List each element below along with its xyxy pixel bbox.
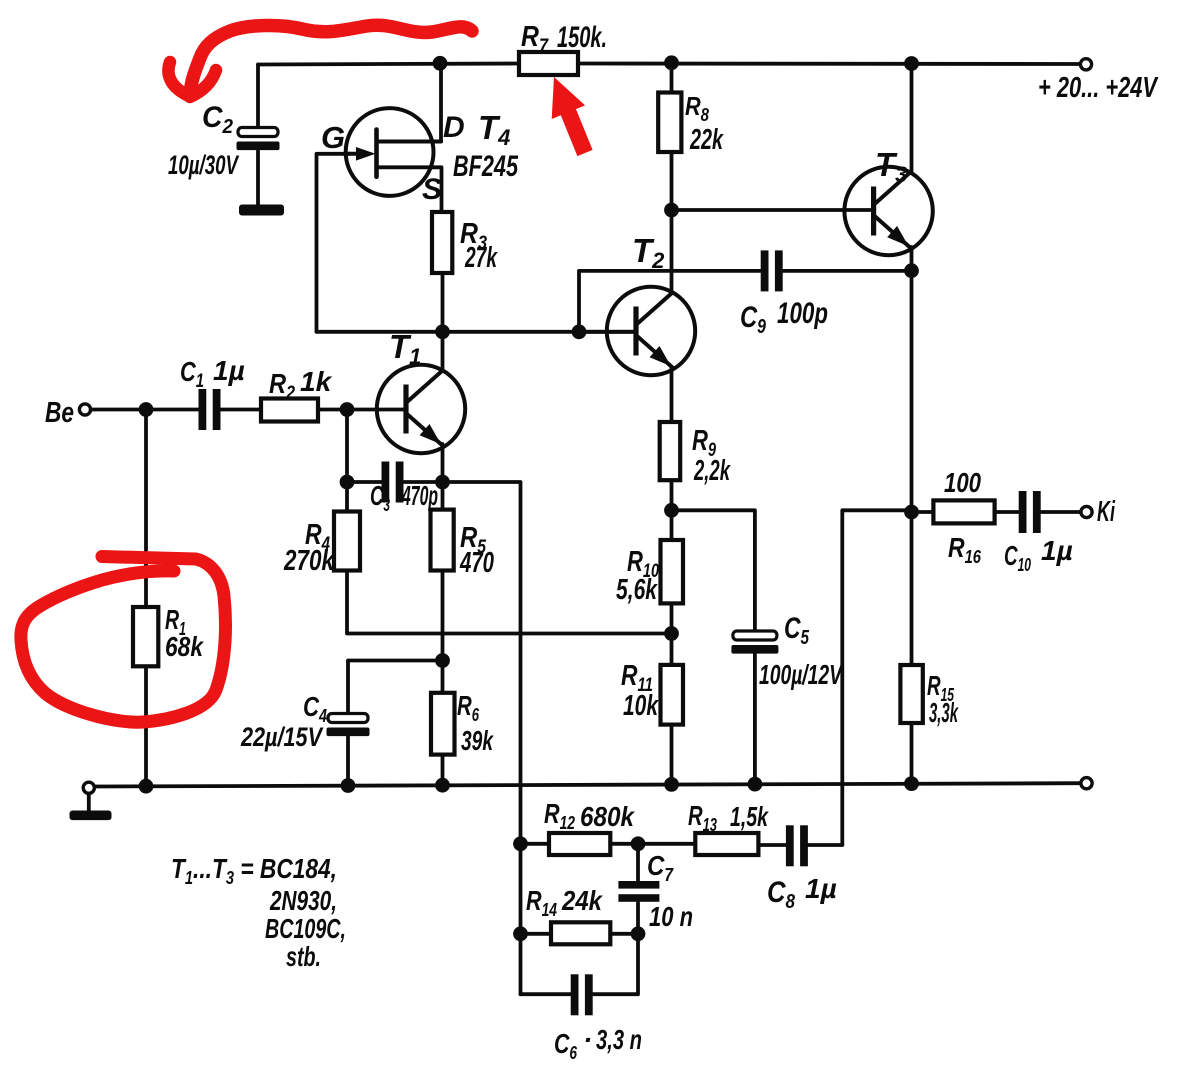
label 680k bbox=[580, 801, 635, 832]
svg-text:S: S bbox=[422, 173, 442, 206]
label 470p bbox=[401, 480, 438, 511]
terminal ground left bbox=[83, 782, 94, 793]
label R8 bbox=[685, 91, 709, 125]
svg-text:22µ/15V: 22µ/15V bbox=[240, 722, 323, 752]
label C3 bbox=[370, 480, 390, 515]
svg-text:2,2k: 2,2k bbox=[693, 455, 731, 487]
wire T3 collector to rail bbox=[910, 64, 914, 173]
wire C3 right bbox=[403, 480, 443, 484]
ground bar below C2 bbox=[239, 205, 284, 216]
node C7 top junction bbox=[631, 836, 646, 851]
label R7 bbox=[521, 21, 549, 57]
label 39k bbox=[461, 725, 494, 756]
capacitor C10 bbox=[1019, 491, 1041, 533]
wire R5 to R6 node bbox=[441, 571, 445, 693]
node rail C4 bbox=[341, 778, 356, 793]
svg-text:24k: 24k bbox=[561, 885, 603, 916]
wire T1 collector up bbox=[441, 332, 445, 371]
svg-text:T2: T2 bbox=[632, 232, 665, 273]
svg-text:R13: R13 bbox=[688, 800, 717, 835]
svg-text:R7: R7 bbox=[521, 21, 549, 57]
svg-text:R2: R2 bbox=[269, 368, 295, 404]
svg-text:C7: C7 bbox=[647, 850, 674, 885]
resistor R13 bbox=[695, 833, 758, 855]
svg-text:Be: Be bbox=[45, 397, 74, 429]
wire T3 base bbox=[672, 208, 874, 212]
resistor R4 bbox=[334, 512, 360, 571]
wire C2 to ground bbox=[256, 151, 260, 206]
wire C7 bottom lead bbox=[636, 903, 640, 934]
label C5 bbox=[784, 612, 810, 649]
node R10-R11 junction bbox=[664, 626, 679, 641]
wire C8 right lead bbox=[808, 843, 842, 847]
resistor R12 bbox=[549, 833, 610, 855]
svg-text:3,3 n: 3,3 n bbox=[596, 1024, 642, 1055]
svg-text:C9: C9 bbox=[740, 301, 767, 338]
wire R10 to R11 bbox=[670, 603, 674, 665]
node rail R15 bbox=[904, 776, 919, 791]
svg-text:1k: 1k bbox=[300, 366, 333, 397]
wire C8 riser bbox=[842, 510, 911, 845]
node rail C5 bbox=[748, 777, 763, 792]
wire T1 emitter down bbox=[441, 444, 445, 482]
wire T3 emitter to output node bbox=[910, 271, 914, 512]
label 100p bbox=[777, 297, 828, 330]
node rail R11 bbox=[664, 777, 679, 792]
label R15 bbox=[927, 670, 955, 705]
wire T1 collector node line bbox=[317, 330, 637, 334]
terminal ground right bbox=[1081, 778, 1092, 789]
label 100 bbox=[944, 467, 981, 498]
transistor T4 gate arrow bbox=[345, 147, 376, 161]
wire R14 left bbox=[521, 932, 552, 936]
transistor T2 bbox=[607, 287, 695, 375]
label R14 bbox=[526, 885, 557, 920]
transistor T1 bbox=[377, 365, 465, 453]
label BF245 bbox=[453, 150, 519, 183]
node R3-T1 junction bbox=[435, 324, 450, 339]
label C1 bbox=[180, 356, 204, 392]
svg-text:D: D bbox=[443, 111, 465, 144]
node T3 base node bbox=[664, 203, 679, 218]
label 24k bbox=[561, 885, 603, 916]
wire C6 left lead bbox=[521, 992, 572, 996]
label 3,3k bbox=[929, 697, 959, 728]
svg-text:+ 20... +24V: + 20... +24V bbox=[1038, 72, 1159, 104]
capacitor C6 bbox=[571, 974, 593, 1015]
node rail-T4 junction bbox=[433, 56, 448, 71]
wire R3 to node bbox=[441, 273, 445, 332]
svg-text:27k: 27k bbox=[464, 242, 498, 274]
wire C4 to ground rail bbox=[346, 737, 350, 786]
wire C8 to R13 bbox=[758, 843, 786, 847]
label T3 bbox=[875, 146, 907, 187]
red annotation squiggly arrow top-left bbox=[168, 25, 472, 97]
node rail-R8 junction bbox=[664, 55, 679, 70]
wire C6 right lead bbox=[593, 934, 638, 994]
wire R6 to ground rail bbox=[441, 755, 445, 786]
label Ki bbox=[1097, 496, 1116, 528]
wire C9 to T3 emitter node bbox=[782, 269, 912, 273]
node T1 base junction bbox=[340, 402, 355, 417]
terminal +20...+24V bbox=[1080, 59, 1091, 70]
label C10 bbox=[1004, 540, 1031, 575]
capacitor C9 bbox=[761, 250, 783, 291]
label +20...+24V bbox=[1038, 72, 1159, 104]
capacitor C4 bbox=[327, 714, 370, 737]
wire R1 to ground rail bbox=[144, 666, 148, 786]
svg-text:470p: 470p bbox=[401, 480, 438, 511]
wire R2 to T1 base bbox=[318, 408, 406, 412]
node T1 emitter junction bbox=[435, 475, 450, 490]
label 1,5k bbox=[730, 801, 769, 832]
svg-text:C10: C10 bbox=[1004, 540, 1031, 575]
label G bbox=[321, 120, 345, 155]
label 270k bbox=[283, 545, 335, 577]
resistor R1 bbox=[133, 607, 158, 666]
label 22k bbox=[689, 124, 724, 156]
svg-text:T1...T3 = BC184,: T1...T3 = BC184, bbox=[171, 853, 337, 888]
resistor R16 bbox=[933, 500, 994, 523]
svg-text:680k: 680k bbox=[580, 801, 635, 832]
label T4 bbox=[478, 109, 510, 150]
resistor R3 bbox=[432, 212, 452, 273]
label R16 bbox=[948, 532, 982, 567]
capacitor C2 bbox=[237, 128, 280, 151]
wire T2 emitter to R9 bbox=[670, 368, 674, 422]
resistor R8 bbox=[658, 93, 681, 153]
label C2 bbox=[202, 101, 233, 138]
label T1 bbox=[389, 328, 421, 369]
svg-text:270k: 270k bbox=[283, 545, 335, 577]
transistor T4 circle bbox=[346, 108, 434, 196]
node T2 base junction bbox=[572, 324, 587, 339]
svg-text:R6: R6 bbox=[457, 690, 480, 725]
wire R16 to C10 bbox=[995, 510, 1020, 514]
label transistor types line3 bbox=[265, 913, 346, 944]
resistor R15 bbox=[900, 665, 922, 723]
label C1 value 1µ bbox=[213, 355, 245, 386]
label C8 bbox=[767, 876, 796, 913]
resistor R9 bbox=[660, 422, 681, 480]
capacitor C5 bbox=[731, 631, 778, 654]
wire output node to R15 bbox=[910, 512, 914, 665]
label Be bbox=[45, 397, 74, 429]
label C10 value 1µ bbox=[1041, 535, 1073, 566]
label R4 bbox=[305, 519, 330, 555]
resistor R11 bbox=[661, 665, 684, 725]
label 470 bbox=[459, 547, 494, 579]
svg-text:68k: 68k bbox=[165, 631, 204, 662]
label R5 bbox=[460, 522, 486, 558]
node C3 left junction bbox=[340, 475, 355, 490]
svg-text:470: 470 bbox=[459, 547, 494, 579]
wire T3 emitter to node bbox=[910, 247, 914, 271]
transistor T4 drain lead bbox=[377, 140, 442, 144]
wire R8 to T3 base node bbox=[670, 152, 674, 210]
node input junction bbox=[139, 402, 154, 417]
red annotation circle around R1 bbox=[21, 557, 226, 723]
wire T4 gate down bbox=[317, 154, 351, 332]
resistor R5 bbox=[431, 510, 454, 571]
wire R11 to ground rail bbox=[670, 725, 674, 785]
svg-text:1µ: 1µ bbox=[805, 873, 837, 904]
label 150k. bbox=[557, 21, 607, 54]
label R2 bbox=[269, 368, 295, 404]
wire R4 to bootstrap line bbox=[347, 571, 672, 634]
node T3 emitter node bbox=[904, 263, 919, 278]
svg-text:100: 100 bbox=[944, 467, 981, 498]
svg-text:R14: R14 bbox=[526, 885, 557, 920]
capacitor C3 bbox=[382, 462, 404, 503]
wire output node to R16 bbox=[912, 510, 934, 514]
svg-text:150k.: 150k. bbox=[557, 21, 607, 54]
label 100µ/12V bbox=[759, 659, 844, 690]
wire C3 left bbox=[347, 480, 383, 484]
label R2 value 1k bbox=[300, 366, 333, 397]
wire T2 base bbox=[579, 330, 636, 334]
terminal Ki bbox=[1081, 506, 1092, 517]
label R1 bbox=[165, 604, 186, 639]
wire C5 to ground rail bbox=[753, 654, 757, 784]
wire R12 left bbox=[521, 842, 550, 846]
node R12 left junction bbox=[513, 836, 528, 851]
node C7-C6 junction bbox=[631, 926, 646, 941]
label 2,2k bbox=[693, 455, 731, 487]
wire C5 branch bbox=[672, 510, 755, 633]
svg-text:3,3k: 3,3k bbox=[929, 697, 959, 728]
transistor T4 source lead bbox=[377, 167, 442, 212]
label 10µ/30V bbox=[168, 150, 239, 180]
wire C1 to R2 bbox=[220, 408, 262, 412]
label 27k bbox=[464, 242, 498, 274]
node R14 left junction bbox=[513, 926, 528, 941]
wire R12 to C7 node bbox=[610, 842, 695, 846]
resistor R14 bbox=[551, 922, 610, 944]
label C7 bbox=[647, 850, 674, 885]
capacitor C8 bbox=[786, 825, 808, 866]
svg-text:R12: R12 bbox=[544, 798, 575, 833]
wire R9 to node bbox=[670, 480, 674, 540]
label transistor types line2 bbox=[269, 885, 337, 916]
label R3 bbox=[460, 218, 487, 254]
svg-text:T3: T3 bbox=[875, 146, 907, 187]
svg-text:R8: R8 bbox=[685, 91, 709, 125]
wire source to R3 bbox=[442, 210, 443, 214]
svg-text:100p: 100p bbox=[777, 297, 828, 330]
svg-text:22k: 22k bbox=[689, 124, 724, 156]
node R5-R6 junction bbox=[435, 653, 450, 668]
resistor R6 bbox=[431, 693, 455, 755]
label D bbox=[443, 111, 465, 144]
svg-text:10µ/30V: 10µ/30V bbox=[168, 150, 239, 180]
capacitor C1 bbox=[199, 389, 221, 430]
label S bbox=[422, 173, 442, 206]
label R10 bbox=[627, 546, 659, 582]
wire T1 emitter feedback line bbox=[443, 482, 521, 994]
svg-text:T1: T1 bbox=[389, 328, 421, 369]
wire T1 base to C3 node bbox=[345, 410, 349, 483]
label 10n bbox=[649, 901, 693, 932]
wire C7 top lead bbox=[636, 844, 640, 880]
svg-text:C6: C6 bbox=[554, 1028, 578, 1063]
svg-text:C2: C2 bbox=[202, 101, 233, 138]
svg-text:·: · bbox=[583, 1024, 592, 1055]
svg-text:stb.: stb. bbox=[286, 941, 321, 972]
svg-text:1µ: 1µ bbox=[1041, 535, 1073, 566]
label 22µ/15V bbox=[240, 722, 323, 752]
red annotation arrow at R7 bbox=[552, 77, 593, 156]
svg-text:10 n: 10 n bbox=[649, 901, 693, 932]
wire R15 to ground rail bbox=[910, 723, 914, 784]
svg-text:T4: T4 bbox=[478, 109, 510, 150]
wire T2 base up to C9 line bbox=[579, 271, 762, 332]
svg-text:BF245: BF245 bbox=[453, 150, 519, 183]
svg-text:C1: C1 bbox=[180, 356, 204, 392]
label 5,6k bbox=[616, 574, 658, 606]
label transistor types line1 bbox=[171, 853, 337, 888]
svg-text:C4: C4 bbox=[303, 691, 327, 726]
wire T1 emitter to R5 bbox=[441, 482, 445, 510]
svg-text:2N930,: 2N930, bbox=[269, 885, 337, 916]
label R13 bbox=[688, 800, 717, 835]
resistor R7 bbox=[519, 52, 578, 75]
label 68k bbox=[165, 631, 204, 662]
svg-text:5,6k: 5,6k bbox=[616, 574, 658, 606]
resistor R2 bbox=[261, 399, 318, 422]
wire C2 to rail bbox=[256, 65, 260, 130]
label transistor types line4 bbox=[286, 941, 321, 972]
label C9 bbox=[740, 301, 767, 338]
label R9 bbox=[692, 425, 716, 461]
wire T4 drain to rail bbox=[439, 64, 443, 142]
svg-text:39k: 39k bbox=[461, 725, 494, 756]
label R6 bbox=[457, 690, 480, 725]
wire top supply rail bbox=[258, 64, 1081, 65]
wire T2 collector up bbox=[670, 210, 674, 291]
svg-text:G: G bbox=[321, 120, 345, 155]
node rail-T3 junction bbox=[904, 56, 919, 71]
svg-text:1,5k: 1,5k bbox=[730, 801, 769, 832]
wire ground rail bbox=[94, 783, 1080, 786]
label C8 value 1µ bbox=[805, 873, 837, 904]
wire R14 right bbox=[610, 932, 638, 936]
node output junction bbox=[904, 505, 919, 520]
svg-text:C5: C5 bbox=[784, 612, 810, 649]
wire rail to R8 bbox=[670, 63, 674, 93]
terminal Be bbox=[79, 404, 90, 415]
svg-text:BC109C,: BC109C, bbox=[265, 913, 346, 944]
capacitor C7 bbox=[618, 881, 659, 902]
label T2 bbox=[632, 232, 665, 273]
node R9-R10 junction bbox=[664, 503, 679, 518]
label 10k bbox=[623, 690, 659, 722]
label C4 bbox=[303, 691, 327, 726]
svg-text:Ki: Ki bbox=[1097, 496, 1116, 528]
svg-text:1µ: 1µ bbox=[213, 355, 245, 386]
node rail R1 bbox=[139, 779, 154, 794]
label R11 bbox=[621, 660, 653, 696]
transistor T4 channel bar bbox=[374, 130, 379, 177]
resistor R10 bbox=[661, 540, 684, 603]
label C6 and value bbox=[554, 1024, 642, 1063]
wire Be to C1 bbox=[91, 408, 200, 412]
svg-text:100µ/12V: 100µ/12V bbox=[759, 659, 844, 690]
svg-text:C8: C8 bbox=[767, 876, 796, 913]
transistor T3 bbox=[844, 167, 932, 255]
wire junction to R1 bbox=[144, 410, 148, 608]
svg-text:R16: R16 bbox=[948, 532, 982, 567]
wire C10 to Ki bbox=[1040, 510, 1081, 514]
wire C4 branch bbox=[348, 661, 443, 717]
label R12 bbox=[544, 798, 575, 833]
wire C3 node to R4 bbox=[345, 482, 349, 512]
ground symbol bbox=[70, 793, 112, 820]
node rail R6 bbox=[435, 778, 450, 793]
svg-text:10k: 10k bbox=[623, 690, 659, 722]
